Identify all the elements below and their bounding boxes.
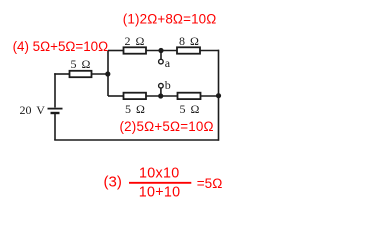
svg-text:(4) 5Ω+5Ω=10Ω: (4) 5Ω+5Ω=10Ω <box>13 39 109 54</box>
wire: from battery - terminal down to bottom-left corner <box>54 114 56 140</box>
svg-text:5 Ω: 5 Ω <box>180 102 200 116</box>
terminal a open circle <box>159 59 164 64</box>
svg-text:8 Ω: 8 Ω <box>179 34 199 48</box>
resistor R3 8Ω <box>177 47 200 53</box>
wire: left vertical from top-left corner down to battery + terminal <box>54 73 56 107</box>
wire: top branch middle segment between R2 and R3 <box>146 50 177 52</box>
wire: top branch left segment <box>108 50 124 52</box>
svg-text:=5Ω: =5Ω <box>197 176 222 191</box>
wire: stub down to terminal a <box>160 51 162 60</box>
junction dot at right node <box>216 93 221 98</box>
battery V1 20V: long positive plate <box>48 108 63 110</box>
resistor R1 5Ω (top left series resistor) <box>70 71 92 77</box>
junction dot for node b on bottom branch <box>158 93 163 98</box>
svg-text:(1)2Ω+8Ω=10Ω: (1)2Ω+8Ω=10Ω <box>123 12 217 27</box>
junction dot for node a on top branch <box>158 48 163 53</box>
wire: bottom branch right segment to right vertical <box>201 95 219 97</box>
resistor R5 5Ω (bottom branch right) <box>178 93 201 99</box>
svg-text:10x10: 10x10 <box>139 166 179 182</box>
wire: top-left horizontal into R1 <box>54 73 69 75</box>
svg-text:2 Ω: 2 Ω <box>125 34 145 48</box>
battery V1 20V: short negative plate <box>51 112 60 114</box>
resistor R4 5Ω (bottom branch left) <box>124 93 147 99</box>
svg-text:20 V: 20 V <box>20 103 46 117</box>
wire: stub up to terminal b <box>160 88 162 96</box>
resistor R2 2Ω <box>124 47 147 53</box>
wire: middle-left vertical connecting parallel branches <box>107 51 109 97</box>
junction dot at left node <box>105 71 110 76</box>
wire: top branch right segment to right vertical <box>200 50 219 52</box>
wire: bottom return wire <box>54 139 218 141</box>
wire: right vertical wire <box>218 50 220 141</box>
terminal b open circle <box>159 83 164 88</box>
svg-text:5 Ω: 5 Ω <box>125 102 145 116</box>
svg-text:(2)5Ω+5Ω=10Ω: (2)5Ω+5Ω=10Ω <box>120 119 214 134</box>
annotation fraction bar <box>129 182 191 184</box>
wire: bottom branch left segment <box>108 95 124 97</box>
svg-text:(3): (3) <box>104 174 122 191</box>
wire: bottom branch middle segment between R4 and R5 <box>146 95 177 97</box>
svg-text:5 Ω: 5 Ω <box>71 57 91 71</box>
wire: R1 to left junction node <box>92 73 109 75</box>
svg-text:b: b <box>165 78 171 92</box>
svg-text:a: a <box>165 56 171 70</box>
svg-text:10+10: 10+10 <box>139 184 181 200</box>
